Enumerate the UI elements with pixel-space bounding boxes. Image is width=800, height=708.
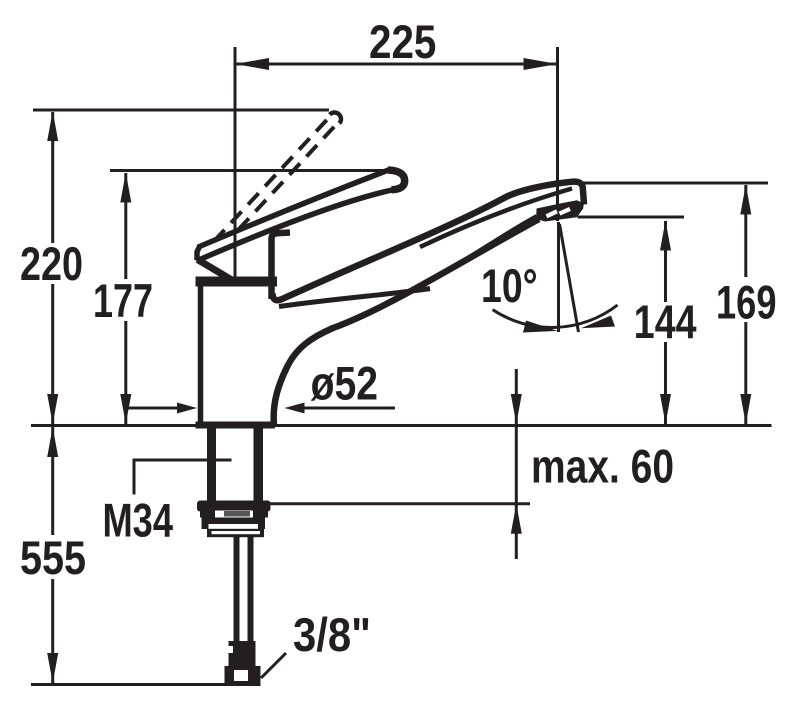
svg-text:220: 220 [20, 237, 83, 290]
svg-text:169: 169 [716, 275, 777, 328]
svg-text:M34: M34 [103, 494, 174, 547]
svg-text:555: 555 [20, 531, 86, 584]
svg-text:144: 144 [634, 295, 697, 348]
svg-text:177: 177 [93, 274, 153, 327]
svg-text:3/8": 3/8" [293, 608, 371, 661]
svg-text:225: 225 [369, 15, 436, 68]
svg-text:ø52: ø52 [311, 357, 378, 410]
svg-text:max. 60: max. 60 [531, 440, 674, 493]
svg-text:10°: 10° [481, 259, 538, 312]
